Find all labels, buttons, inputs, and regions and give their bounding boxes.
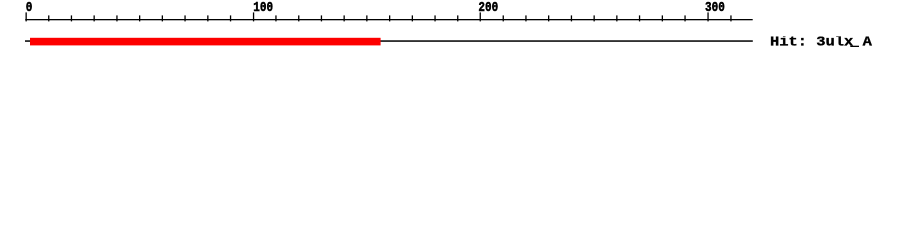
svg-text:100: 100: [253, 0, 273, 16]
hit red bar: [30, 38, 381, 46]
major tick 0: [26, 12, 27, 21]
underscore of hit name: [850, 46, 859, 47]
hit baseline wire: [25, 40, 753, 42]
major tick 100: [253, 12, 254, 21]
svg-text:0: 0: [26, 0, 33, 16]
label 300: [705, 0, 725, 16]
major tick 200: [480, 12, 481, 21]
major tick 300: [707, 12, 708, 21]
label 200: [478, 0, 498, 16]
label 0: [26, 0, 33, 16]
ruler axis line: [25, 19, 753, 20]
minor ticks: [48, 15, 732, 21]
svg-text:300: 300: [705, 0, 725, 16]
label 100: [253, 0, 273, 16]
svg-text:200: 200: [478, 0, 498, 16]
background: [0, 0, 900, 60]
